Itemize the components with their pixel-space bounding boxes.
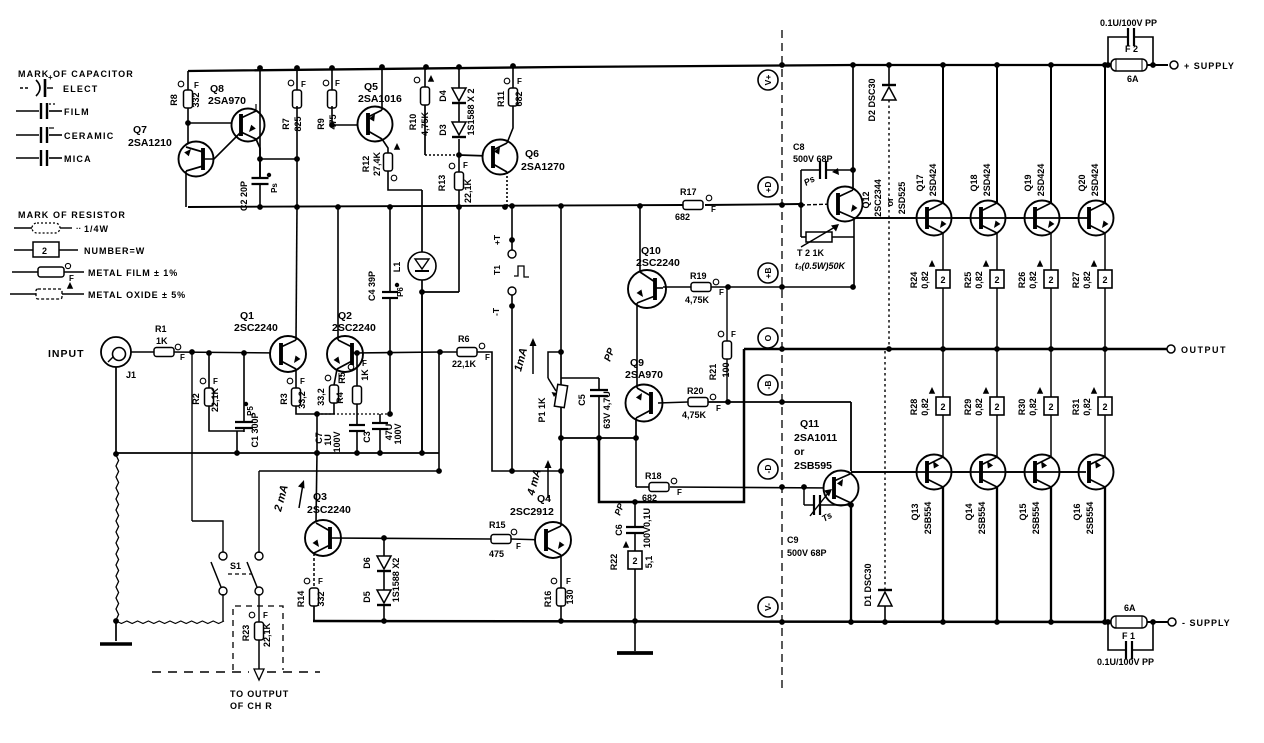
label 1mA — [512, 338, 536, 374]
svg-text:-B: -B — [763, 381, 773, 390]
svg-text:0,82: 0,82 — [974, 398, 984, 416]
wire pole A bottom — [222, 594, 224, 621]
svg-text:Q8: Q8 — [210, 83, 224, 95]
svg-text:+ SUPPLY: + SUPPLY — [1184, 61, 1235, 71]
svg-text:P5: P5 — [246, 406, 255, 416]
transistor Q8 — [232, 109, 265, 142]
svg-text:R19: R19 — [690, 271, 707, 281]
svg-text:MICA: MICA — [64, 154, 92, 164]
wire J1 ground column — [116, 367, 119, 641]
wire R9 bottom to Q5 base — [329, 68, 360, 128]
svg-text:INPUT: INPUT — [48, 348, 85, 360]
wire VAS rail — [188, 204, 801, 207]
svg-text:D4: D4 — [438, 90, 448, 102]
label R10 — [408, 114, 418, 131]
label 4mA — [525, 460, 551, 498]
wire Q16 emitter — [1104, 415, 1106, 457]
ground R22 — [617, 651, 653, 655]
wire pole B bottom — [258, 594, 260, 622]
wire dotted emitter bus — [317, 353, 393, 417]
svg-text:5,1: 5,1 — [644, 556, 654, 569]
label R14 — [296, 591, 306, 608]
legend metal oxide symbol — [10, 282, 84, 299]
svg-text:R1: R1 — [155, 324, 167, 334]
resistor R3 — [287, 377, 305, 406]
wire Q12 emitter column — [853, 218, 855, 287]
label Q9 type — [625, 369, 663, 381]
transistor Q13 — [917, 455, 952, 490]
wire upper base row overlay — [854, 217, 1088, 219]
wire Q14 collector — [996, 487, 998, 622]
svg-text:R23: R23 — [241, 625, 251, 642]
inductor L1 — [408, 190, 436, 290]
label R18 — [645, 471, 662, 481]
label R23 — [241, 625, 251, 642]
label Q4 type — [510, 506, 554, 518]
svg-text:Q17: Q17 — [915, 174, 925, 191]
label C2 — [239, 181, 249, 211]
legend ceramic symbol — [16, 127, 62, 143]
fuse F2 — [1111, 59, 1147, 71]
svg-text:F: F — [463, 161, 468, 170]
svg-text:P6: P6 — [396, 287, 405, 297]
svg-text:825: 825 — [293, 116, 303, 131]
svg-text:2SC2912: 2SC2912 — [510, 506, 554, 518]
svg-text:R30: R30 — [1017, 399, 1027, 416]
resistor R31 — [1091, 387, 1112, 415]
label Q20 — [1077, 174, 1087, 191]
transistor Q4 — [535, 522, 571, 558]
test point V- — [758, 597, 778, 617]
wire Q2 emitter to R4 — [334, 369, 337, 385]
wire Q6 emitter — [506, 172, 508, 207]
label R24 — [909, 272, 919, 289]
wire R11 to Q6 collector — [507, 66, 513, 143]
resistor R21 — [718, 287, 736, 359]
wire D5 bottom — [383, 605, 385, 621]
wire Q10 collector — [639, 206, 641, 272]
svg-text:CERAMIC: CERAMIC — [64, 131, 114, 141]
svg-text:Q7: Q7 — [133, 124, 147, 136]
capacitor C3 — [372, 414, 388, 453]
wire Q4 collector — [560, 471, 562, 526]
diode D6 — [377, 538, 391, 571]
svg-text:22,1K: 22,1K — [452, 359, 477, 369]
label R25 — [963, 272, 973, 289]
label OUTPUT — [1181, 345, 1227, 355]
wire R29 to output — [996, 349, 998, 397]
label R22 — [609, 554, 619, 571]
svg-text:D5: D5 — [362, 591, 372, 603]
resistor R18 — [636, 478, 682, 497]
transistor Q12 — [828, 187, 863, 222]
label Q8 — [210, 83, 224, 95]
squarewave glyph — [514, 266, 529, 277]
capacitor C7 — [349, 404, 365, 453]
svg-text:METAL OXIDE ± 5%: METAL OXIDE ± 5% — [88, 290, 186, 300]
svg-text:Q4: Q4 — [537, 493, 551, 505]
label C8 value — [793, 154, 833, 164]
node bottom rail dots — [381, 618, 1156, 625]
label Q19 type — [1036, 164, 1046, 197]
label R19 — [690, 271, 707, 281]
label D3 — [438, 124, 448, 136]
wire Q14 emitter — [996, 415, 998, 457]
label 2mA — [272, 480, 304, 514]
svg-text:2SB554: 2SB554 — [923, 502, 933, 535]
label R3 value — [297, 391, 307, 409]
label F1 rating — [1124, 603, 1136, 613]
label R21 value — [721, 362, 731, 377]
wire D3 to R13 — [458, 139, 460, 172]
wire switch branch — [436, 352, 442, 474]
wire Q2 base line — [352, 349, 443, 356]
svg-text:F: F — [213, 377, 218, 386]
label R31 — [1071, 399, 1081, 416]
resistor R23 — [249, 611, 268, 640]
svg-text:+: + — [48, 73, 53, 82]
svg-text:1K: 1K — [360, 369, 370, 381]
label Q10 type — [636, 257, 680, 269]
svg-text:Q11: Q11 — [800, 418, 819, 430]
resistor R26 — [1037, 260, 1058, 288]
terminal output — [1167, 345, 1175, 353]
svg-text:2SD424: 2SD424 — [982, 164, 992, 197]
resistor R9 — [323, 79, 340, 108]
wire P1 column — [558, 206, 564, 471]
legend METAL FILM text — [88, 268, 178, 278]
wire pole A from input — [192, 352, 223, 553]
test point O — [758, 328, 778, 348]
label - SUPPLY — [1182, 618, 1231, 628]
wire R23 arrow — [254, 640, 264, 680]
test point -B — [758, 375, 778, 395]
svg-text:TO OUTPUT: TO OUTPUT — [230, 689, 289, 699]
legend MICA text — [64, 154, 92, 164]
wire Q3 emitter — [313, 553, 315, 588]
svg-text:2: 2 — [632, 556, 637, 566]
svg-text:R21: R21 — [708, 364, 718, 381]
svg-text:2: 2 — [940, 402, 945, 412]
label C5 — [577, 394, 587, 406]
svg-text:2SA970: 2SA970 — [208, 95, 246, 107]
svg-text:V+: V+ — [763, 75, 773, 86]
wire output rail — [744, 346, 1167, 352]
resistor R14 — [304, 577, 323, 606]
svg-text:NUMBER=W: NUMBER=W — [84, 246, 145, 256]
svg-text:6A: 6A — [1124, 603, 1136, 613]
svg-text:D1 DSC30: D1 DSC30 — [863, 563, 873, 606]
svg-text:D6: D6 — [362, 557, 372, 569]
label R5 — [337, 372, 347, 384]
svg-text:F: F — [301, 80, 306, 89]
dashed chassis line — [152, 671, 320, 673]
svg-text:F: F — [566, 577, 571, 586]
label INPUT — [48, 348, 85, 360]
svg-text:F: F — [677, 488, 682, 497]
svg-text:1K: 1K — [156, 336, 168, 346]
resistor R12 — [384, 143, 401, 181]
label R3 — [279, 393, 289, 405]
svg-text:2SA1210: 2SA1210 — [128, 137, 172, 149]
connector J1 — [101, 337, 131, 367]
svg-text:R13: R13 — [437, 175, 447, 192]
svg-text:R8: R8 — [169, 94, 179, 106]
wire Q1 collector — [296, 207, 297, 340]
label Q16 type — [1085, 502, 1095, 535]
svg-text:T1: T1 — [492, 265, 502, 275]
label R6 value — [452, 359, 477, 369]
resistor R5 — [348, 353, 367, 404]
label R6 — [458, 334, 470, 344]
svg-text:O: O — [763, 334, 773, 341]
test point V+ — [758, 70, 778, 90]
legend film symbol — [16, 103, 62, 119]
svg-text:2SD424: 2SD424 — [1090, 164, 1100, 197]
label R5 value — [360, 369, 370, 381]
legend metal film symbol — [12, 263, 84, 283]
svg-text:Q20: Q20 — [1077, 174, 1087, 191]
svg-text:L1: L1 — [392, 262, 402, 273]
label C3 value — [384, 423, 403, 444]
label Q11 type1 — [794, 432, 837, 444]
svg-text:R15: R15 — [489, 520, 506, 530]
svg-text:Q14: Q14 — [964, 503, 974, 520]
resistor R20 — [658, 394, 721, 413]
wire Q13 collector — [942, 487, 944, 622]
svg-text:R3: R3 — [279, 393, 289, 405]
dashed channel boundary — [781, 30, 783, 692]
resistor R16 — [551, 577, 571, 606]
legend title capacitors — [18, 69, 134, 79]
svg-text:4,75K: 4,75K — [685, 295, 710, 305]
wire Q7 collector — [185, 171, 187, 207]
svg-text:R12: R12 — [361, 156, 371, 173]
svg-text:2SC2344: 2SC2344 — [873, 179, 883, 217]
label D5 D6 type — [391, 558, 401, 603]
wire C2 branch to R7 — [257, 156, 300, 162]
label Q18 — [969, 174, 979, 191]
transistor Q9 — [626, 385, 663, 422]
label Q2 type — [332, 322, 376, 334]
svg-text:S1: S1 — [230, 561, 241, 571]
capacitor C4 — [382, 207, 398, 353]
label C6 — [612, 501, 626, 536]
label R25 value — [974, 271, 984, 289]
wire Q3 base line — [330, 535, 491, 541]
wire Q9 collector — [635, 418, 637, 438]
label Q11 — [800, 418, 819, 430]
svg-text:22,1K: 22,1K — [262, 622, 272, 647]
wire R18 to Q11 base — [670, 484, 834, 490]
svg-text:33,2: 33,2 — [297, 391, 307, 409]
svg-text:6A: 6A — [1127, 74, 1139, 84]
svg-text:FILM: FILM — [64, 107, 90, 117]
resistor R2 — [200, 353, 218, 406]
wire Q5 collector to R12 — [382, 139, 388, 153]
label F2 — [1125, 44, 1138, 54]
wire + supply top rail — [188, 65, 1168, 71]
label R1 — [155, 324, 167, 334]
wire Q5 emitter — [381, 67, 383, 110]
svg-text:F: F — [263, 611, 268, 620]
label R31 value — [1082, 398, 1092, 416]
svg-text:-T: -T — [491, 307, 501, 316]
label R22 value — [644, 556, 654, 569]
wire Q9 to R18 — [635, 438, 637, 487]
svg-text:2: 2 — [1048, 275, 1053, 285]
wire Q18 collector — [996, 65, 998, 203]
label C8 Ps mark — [802, 168, 839, 188]
svg-text:2: 2 — [1102, 275, 1107, 285]
label R26 value — [1028, 271, 1038, 289]
wire - supply bottom rail — [313, 621, 1111, 622]
transistor Q15 — [1025, 455, 1060, 490]
resistor R28 — [929, 387, 950, 415]
svg-text:R18: R18 — [645, 471, 662, 481]
svg-text:0,82: 0,82 — [1082, 271, 1092, 289]
svg-text:F: F — [335, 79, 340, 88]
wire Q4 emitter — [560, 555, 562, 588]
label R24 value — [920, 271, 930, 289]
label R9 — [316, 118, 326, 130]
label Q17 type — [928, 164, 938, 197]
svg-text:F: F — [716, 404, 721, 413]
svg-text:OF CH R: OF CH R — [230, 701, 273, 711]
svg-text:1S1588 X 2: 1S1588 X 2 — [466, 88, 476, 135]
svg-text:+T: +T — [492, 234, 502, 245]
wire R22 ground — [632, 569, 638, 651]
capacitor 0.1u bottom bypass — [1108, 622, 1153, 659]
label Q5 type — [358, 93, 402, 105]
wire R20 line — [708, 399, 851, 405]
label P1 — [537, 397, 547, 423]
dashed box R23 — [233, 606, 283, 670]
svg-text:2SB554: 2SB554 — [1031, 502, 1041, 535]
svg-text:2SD424: 2SD424 — [928, 164, 938, 197]
svg-text:R17: R17 — [680, 187, 697, 197]
wire lower base row overlay — [851, 471, 1086, 473]
label Q15 — [1018, 503, 1028, 520]
label R11 — [496, 91, 506, 107]
label R27 — [1071, 272, 1081, 289]
legend number symbol — [14, 242, 78, 257]
legend mica symbol — [16, 150, 62, 166]
wire T1 column — [509, 206, 515, 471]
label R2 — [191, 393, 201, 405]
transistor Q18 — [971, 201, 1006, 236]
svg-text:T 2 1K: T 2 1K — [797, 248, 825, 258]
label C9 — [787, 535, 799, 545]
wire R14 bottom — [314, 606, 384, 621]
legend title resistors — [18, 210, 126, 220]
svg-text:R10: R10 — [408, 114, 418, 131]
svg-text:27,4K: 27,4K — [372, 151, 382, 176]
label Q5 — [364, 81, 378, 93]
label Q6 type — [521, 161, 565, 173]
label Q4 — [537, 493, 551, 505]
svg-text:R7: R7 — [281, 118, 291, 130]
label R27 value — [1082, 271, 1092, 289]
label Q1 — [240, 310, 254, 322]
svg-text:33,2: 33,2 — [316, 388, 326, 406]
svg-text:J1: J1 — [126, 370, 136, 380]
label R7 — [281, 118, 291, 130]
svg-text:332: 332 — [316, 591, 326, 606]
svg-text:C9: C9 — [787, 535, 799, 545]
terminal +T — [508, 250, 516, 258]
label R30 — [1017, 399, 1027, 416]
transistor Q14 — [971, 455, 1006, 490]
label R14 value — [316, 591, 326, 606]
label D3 D4 type — [466, 88, 476, 135]
svg-text:P1 1K: P1 1K — [537, 397, 547, 423]
svg-text:V-: V- — [763, 603, 773, 611]
svg-text:R11: R11 — [496, 91, 506, 107]
svg-text:2SA1270: 2SA1270 — [521, 161, 565, 173]
label +T — [492, 234, 502, 245]
wire rail to terminal — [1147, 621, 1168, 623]
label R16 value — [565, 589, 575, 604]
svg-text:1S1588 X2: 1S1588 X2 — [391, 558, 401, 603]
label C4 P6 mark — [395, 283, 405, 297]
label R30 value — [1028, 398, 1038, 416]
label Q3 — [313, 491, 327, 503]
svg-text:2SA1016: 2SA1016 — [358, 93, 402, 105]
transistor Q7 — [179, 142, 214, 177]
wire R21 bottom — [726, 359, 728, 402]
resistor R29 — [983, 387, 1004, 415]
svg-text:4,75K: 4,75K — [682, 410, 707, 420]
svg-text:··: ·· — [76, 224, 81, 233]
label C4 — [367, 271, 377, 301]
svg-text:C5: C5 — [577, 394, 587, 406]
wire R30 to output — [1050, 349, 1052, 397]
svg-text:F: F — [300, 377, 305, 386]
svg-text:F: F — [517, 77, 522, 86]
svg-text:2SB554: 2SB554 — [1085, 502, 1095, 535]
svg-text:F: F — [485, 353, 490, 362]
svg-text:0.1U/100V PP: 0.1U/100V PP — [1100, 18, 1157, 28]
wire R24 to output — [942, 288, 944, 349]
svg-text:R9: R9 — [316, 118, 326, 130]
svg-text:500V 68P: 500V 68P — [793, 154, 833, 164]
resistor R4 — [325, 374, 343, 403]
wire L1 bottom column — [419, 292, 425, 456]
label Q20 type — [1090, 164, 1100, 197]
label Q3 type — [307, 504, 351, 516]
wire Q20 collector — [1104, 65, 1106, 203]
label Q11 or — [794, 446, 805, 458]
label R17 value — [675, 212, 690, 222]
label 0.1U/100V PP bottom — [1097, 657, 1154, 667]
svg-text:2SD424: 2SD424 — [1036, 164, 1046, 197]
label C1 — [250, 412, 260, 447]
transistor Q20 — [1079, 201, 1114, 236]
label R12 — [361, 156, 371, 173]
svg-text:Q15: Q15 — [1018, 503, 1028, 520]
label R29 value — [974, 398, 984, 416]
label T1 — [492, 265, 502, 275]
label R16 — [543, 591, 553, 608]
svg-text:2: 2 — [1048, 402, 1053, 412]
wire Q17 emitter — [942, 233, 944, 270]
svg-text:- SUPPLY: - SUPPLY — [1182, 618, 1231, 628]
resistor R1 — [154, 344, 185, 362]
transistor Q16 — [1079, 455, 1114, 490]
svg-text:Q13: Q13 — [910, 503, 920, 520]
label R20 — [687, 386, 704, 396]
